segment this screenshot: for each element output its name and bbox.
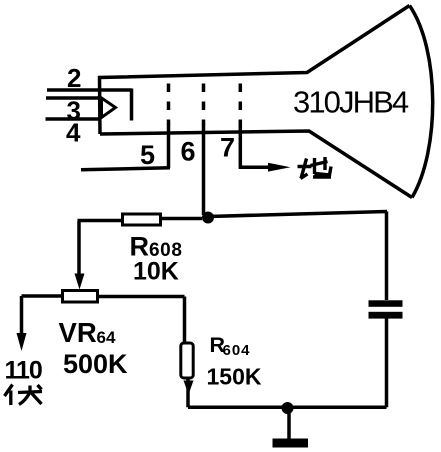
svg-text:64: 64 [97, 328, 116, 347]
svg-text:310JHB4: 310JHB4 [293, 85, 409, 120]
svg-text:2: 2 [67, 63, 81, 93]
svg-text:110: 110 [5, 357, 42, 385]
svg-text:150K: 150K [207, 364, 262, 390]
svg-text:10K: 10K [133, 258, 179, 286]
svg-text:7: 7 [220, 133, 235, 163]
svg-text:4: 4 [66, 118, 81, 148]
svg-text:6: 6 [181, 137, 196, 167]
svg-text:604: 604 [223, 342, 251, 359]
svg-text:VR: VR [59, 317, 97, 348]
svg-text:5: 5 [140, 140, 155, 170]
svg-text:500K: 500K [63, 349, 128, 379]
